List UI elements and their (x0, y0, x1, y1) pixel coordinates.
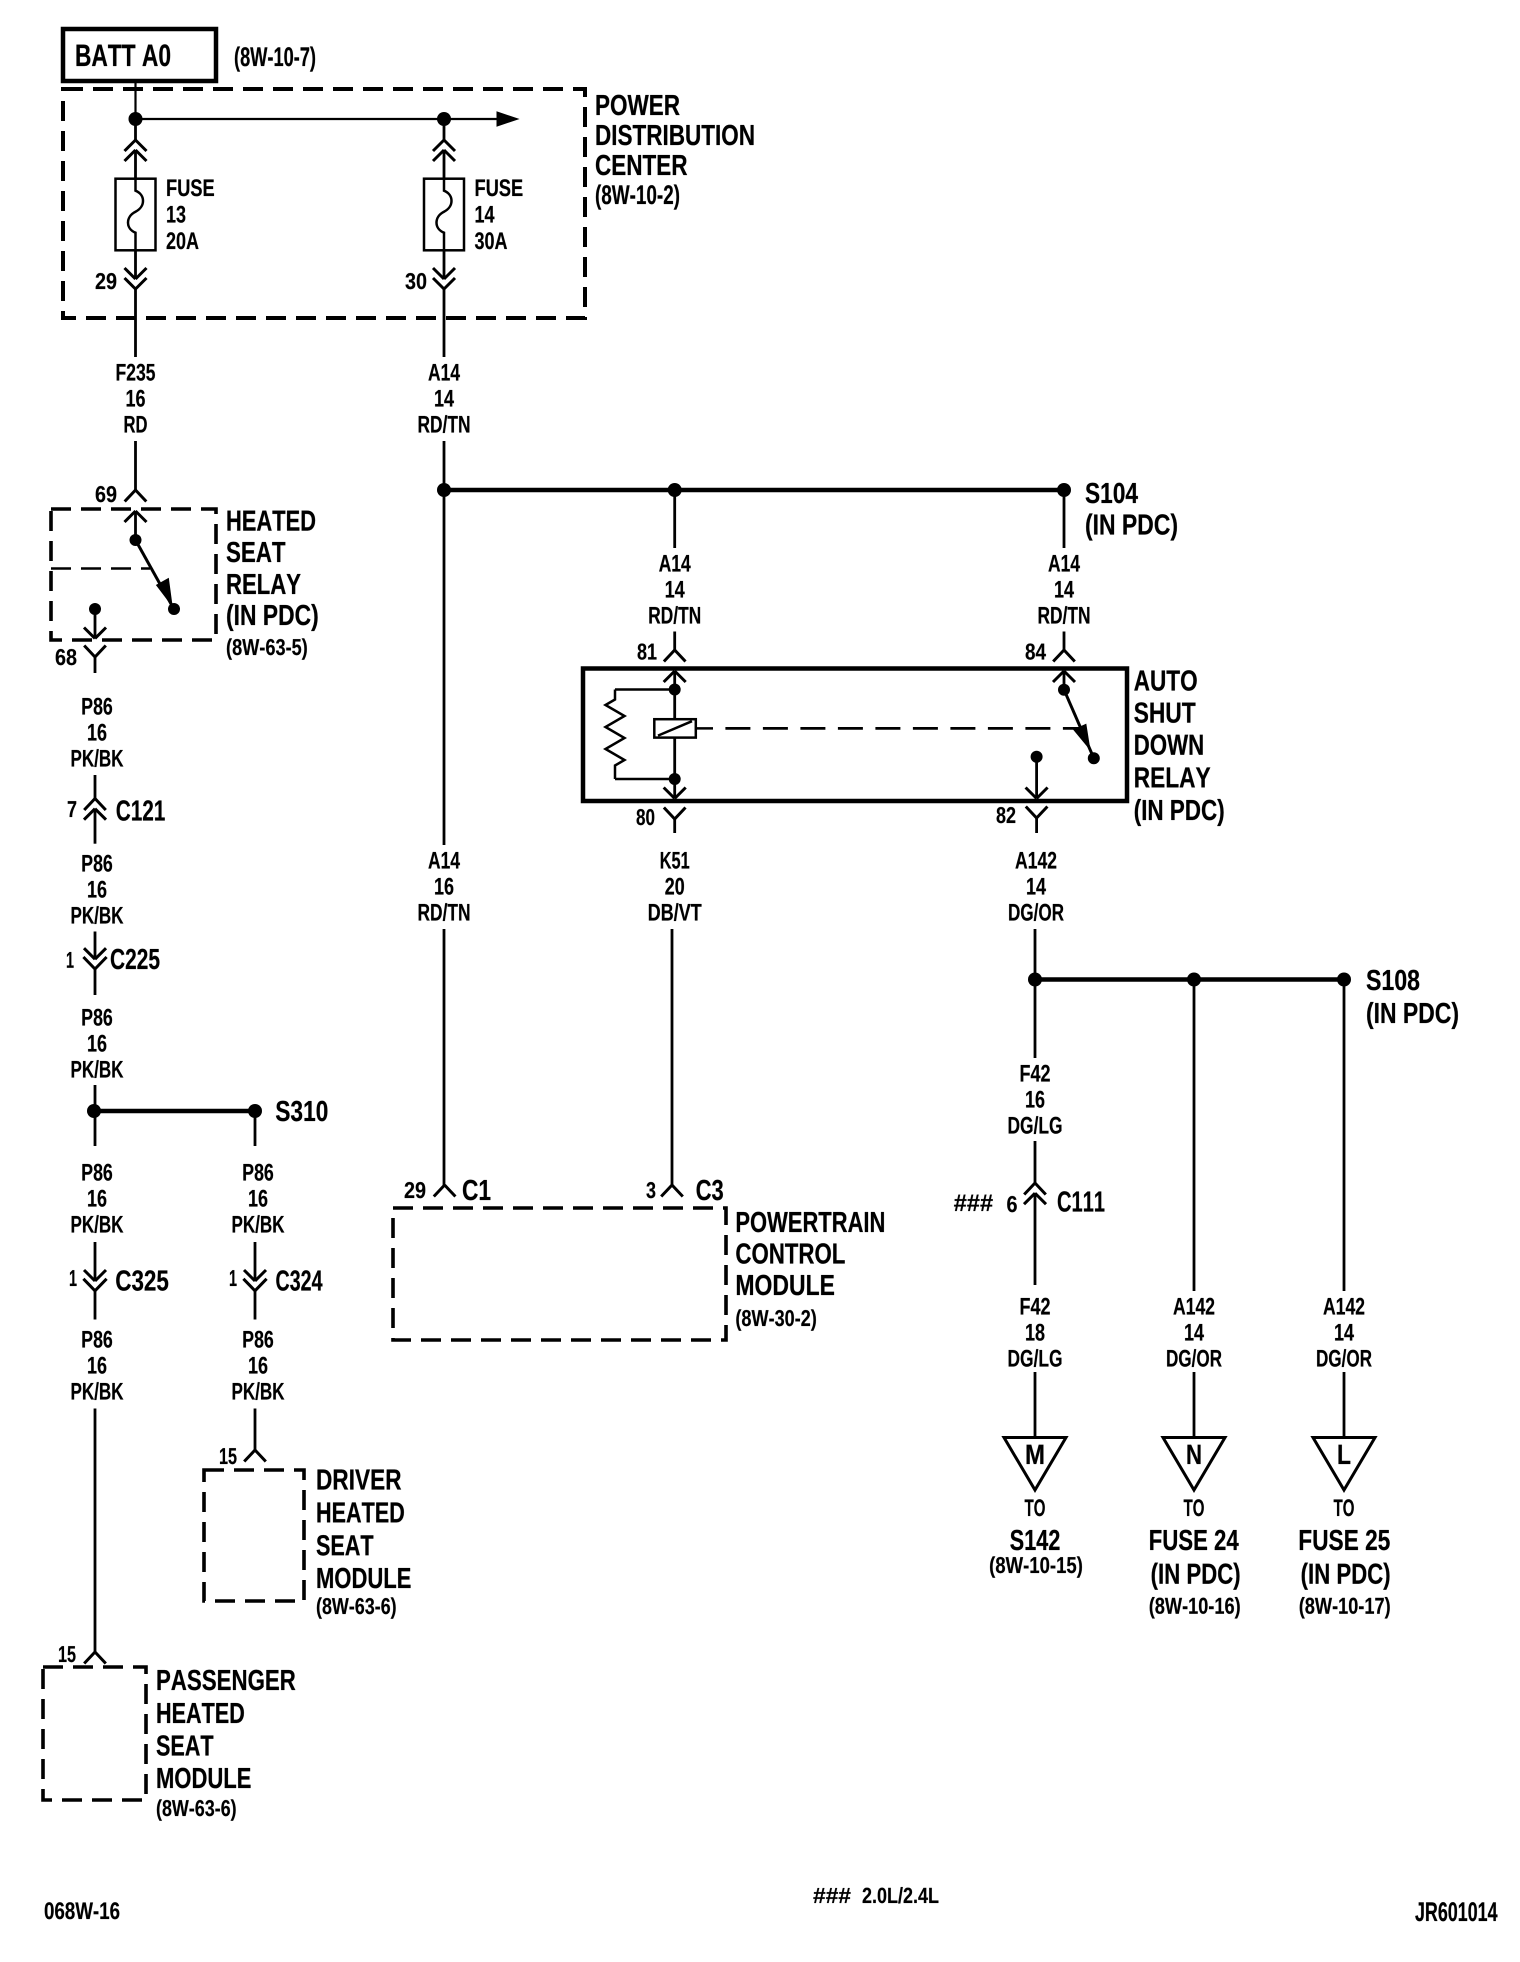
reference (8W-63-6) passenger (157, 1799, 236, 1820)
powertrain control module box (393, 1208, 726, 1340)
pin 7 label (68, 801, 76, 817)
off-page connector triangle N (1163, 1438, 1225, 1491)
wire P86 segment to S310 (94, 1085, 97, 1111)
connector C121 (84, 799, 95, 811)
connector C1 label (463, 1180, 490, 1201)
relay normally-open contact node (168, 603, 180, 615)
power distribution center box (63, 89, 585, 318)
wire P86 segment to C121 (94, 775, 97, 799)
wire P86 segment to C225 (94, 932, 97, 960)
destination label TO S142 (1025, 1499, 1045, 1516)
pin 81 label (638, 643, 657, 659)
pin 69 arrow into relay (125, 511, 136, 522)
fuse 13 body (116, 179, 156, 251)
wire F42 16 label (1034, 980, 1037, 1059)
relay switch arm (136, 540, 173, 607)
relay common contact node (130, 534, 142, 546)
wire P86 segment to driver heated seat module (254, 1409, 257, 1451)
wire A14 label above pin 81 (659, 555, 690, 572)
fuse 14 element (437, 179, 452, 250)
pin 81 connector fork (664, 650, 675, 662)
wire F235 segment to heated seat relay (134, 441, 137, 490)
heated seat relay box (51, 509, 216, 640)
connector C225 (84, 948, 95, 959)
splice S108 node right (1337, 973, 1351, 987)
splice S108 bus right segment (1194, 977, 1344, 982)
power distribution center label (597, 95, 680, 116)
pin 69 connector fork (125, 490, 136, 502)
wire A14 segment to S104 (443, 441, 446, 490)
passenger heated seat module label (157, 1670, 295, 1691)
connector C324 label (276, 1270, 322, 1291)
wire P86 label above C121 (82, 698, 112, 715)
connector C111 label (1058, 1191, 1105, 1212)
ASD relay coil (673, 690, 676, 720)
ASD relay switch fixed contact node pin 82 (1031, 751, 1043, 763)
splice S310 bus (94, 1109, 255, 1114)
passenger heated seat module box (43, 1667, 146, 1800)
pin 80 label (637, 809, 655, 825)
pin 69 label (96, 486, 117, 502)
wire A142 label above triangle L (1323, 1298, 1364, 1315)
ASD relay coil top node (669, 684, 681, 696)
pin 80 arrow out of ASD relay (673, 779, 676, 797)
engine footnote marker at C111 (954, 1195, 993, 1211)
pin 82 label (997, 807, 1016, 823)
heated seat relay internal divider (51, 567, 150, 570)
splice S104 node left (437, 483, 451, 497)
driver heated seat module box (204, 1470, 304, 1601)
off-page connector triangle L (1313, 1438, 1375, 1491)
reference (8W-10-7) (235, 46, 315, 71)
splice S310 label (276, 1101, 327, 1122)
pin 82 arrow out of ASD relay (1035, 757, 1038, 797)
splice S108 bus left segment (1035, 977, 1194, 982)
wire P86 left branch below S310 (94, 1111, 97, 1146)
pin 15 connector fork at driver module (244, 1450, 255, 1462)
wire F42 segment to C111 (1034, 1141, 1037, 1183)
wire P86 label below C324 (243, 1331, 273, 1348)
connector C121 label (117, 800, 165, 821)
ASD relay suppression resistor (615, 688, 675, 691)
wire A14 label above pin 84 (1048, 555, 1079, 572)
connector chevrons pin 29 (134, 250, 137, 279)
bus wire from fuse 13 feed to fuse 14 feed (136, 118, 445, 120)
wire from BATT A0 into PDC (134, 81, 136, 119)
reference (8W-10-2) (596, 184, 679, 209)
pin 68 connector fork (84, 646, 95, 658)
connector C3 fork (661, 1185, 672, 1197)
splice S108 node middle (1187, 973, 1201, 987)
battery feed box BATT A0 (63, 29, 216, 81)
pin 15 label at driver module (220, 1448, 237, 1464)
splice S104 label (1086, 483, 1138, 504)
reference (8W-30-2) (736, 1309, 816, 1330)
pin 29 label (96, 273, 117, 289)
wire P86 label below C325 (82, 1331, 112, 1348)
fuse 13 label (167, 179, 214, 196)
heated seat relay label (227, 511, 315, 531)
wire A142 label above triangle N (1173, 1298, 1214, 1315)
auto shut down relay box (583, 669, 1127, 802)
reference (8W-10-16) (1150, 1597, 1240, 1618)
splice S104 bus right segment (675, 488, 1064, 493)
splice S310 node left (87, 1104, 101, 1118)
connector C3 label (697, 1180, 723, 1201)
pin 6 label at C111 (1007, 1196, 1017, 1212)
pin 3 label at PCM C3 (646, 1182, 655, 1198)
pin 30 label (405, 273, 426, 289)
pin 81 arrow into ASD relay (664, 671, 675, 682)
connector C325 (84, 1270, 95, 1281)
wire P86 segment to passenger heated seat module (94, 1409, 97, 1653)
wire P86 label above S310 (82, 1009, 112, 1026)
wire P86 right branch below S310 (254, 1111, 257, 1146)
drawing number JR601014 (1415, 1902, 1497, 1921)
junction at fuse 13 feed (129, 112, 143, 126)
splice S104 node right (1057, 483, 1071, 497)
wire F42 segment to triangle M (1034, 1372, 1037, 1438)
connector C325 label (116, 1270, 168, 1291)
pin 1 label at C325 (70, 1270, 77, 1286)
bus continuation arrow (444, 118, 500, 120)
fuse 14 label (476, 179, 523, 196)
wire A14 16 label (428, 852, 459, 869)
reference (8W-63-6) driver (317, 1597, 396, 1618)
reference (8W-10-15) (990, 1556, 1082, 1577)
connector C324 (244, 1270, 255, 1281)
ASD relay actuation dashed link (696, 727, 713, 730)
wire F42 18 label (1021, 1298, 1050, 1315)
wire K51 label (661, 852, 689, 869)
wire P86 label above C324 (243, 1164, 273, 1181)
engine footnote 2.0L/2.4L (813, 1888, 850, 1903)
pin 84 label (1026, 643, 1046, 659)
relay output contact node pin 68 (89, 603, 101, 615)
wire A14 branch to ASD relay pin 84 (1063, 490, 1066, 548)
connector chevrons pin 30 (443, 250, 446, 279)
splice S310 node right (248, 1104, 262, 1118)
auto shut down relay label (1134, 670, 1196, 691)
splice S108 node left (1028, 973, 1042, 987)
wire K51 segment to PCM C3 (671, 929, 674, 1185)
pin 82 connector fork (1026, 807, 1037, 819)
destination label TO FUSE 24 (1184, 1499, 1204, 1516)
fuse 14 body (424, 179, 464, 251)
pin 29 label at PCM C1 (405, 1182, 426, 1198)
pin 1 label at C324 (230, 1270, 237, 1286)
pin 84 connector fork (1053, 650, 1064, 662)
wire A142 branch to fuse 25 (1343, 980, 1346, 1292)
ASD relay switch common node pin 84 (1058, 684, 1070, 696)
pin 68 label (56, 649, 77, 665)
connector C1 fork (434, 1185, 445, 1197)
connector chevrons above fuse 14 (443, 119, 446, 140)
pin 1 label at C225 (67, 952, 74, 968)
ASD relay switch moving contact node (1088, 752, 1100, 764)
wire F235 label (117, 364, 155, 381)
pin 84 arrow into ASD relay (1053, 671, 1064, 682)
fuse 13 element (128, 179, 143, 250)
wire A14 label below fuse 14 (428, 364, 459, 381)
splice S104 node middle (668, 483, 682, 497)
wire A14 branch to ASD relay pin 81 (673, 490, 676, 548)
connector C225 label (111, 949, 160, 970)
pin 15 label at passenger module (59, 1646, 76, 1662)
connector C111 (1024, 1183, 1035, 1195)
wire A14 main segment to PCM C1 (443, 490, 446, 845)
destination label TO FUSE 25 (1334, 1499, 1354, 1516)
powertrain control module label (737, 1212, 884, 1233)
wire A142 label below pin 82 (1015, 852, 1056, 869)
sheet number 068W-16 (45, 1902, 120, 1919)
wire A142 segment to S108 (1034, 929, 1037, 980)
splice S108 label (1367, 970, 1420, 991)
reference (8W-63-5) (227, 638, 307, 659)
driver heated seat module label (318, 1470, 402, 1490)
wire P86 label above C325 (82, 1164, 112, 1181)
off-page connector triangle M (1004, 1438, 1066, 1491)
ASD relay switch arm (1064, 690, 1092, 755)
wire P86 label above C225 (82, 855, 112, 872)
connector chevrons above fuse 13 (134, 119, 137, 140)
reference (8W-10-17) (1300, 1597, 1390, 1618)
ASD relay coil bottom node (669, 773, 681, 785)
wire A142 branch to fuse 24 (1193, 980, 1196, 1292)
junction at fuse 14 feed (437, 112, 451, 126)
splice S104 bus left segment (444, 488, 675, 493)
pin 80 connector fork (664, 808, 675, 820)
pin 68 arrow out of relay (94, 609, 97, 637)
pin 15 connector fork at passenger module (84, 1652, 95, 1664)
